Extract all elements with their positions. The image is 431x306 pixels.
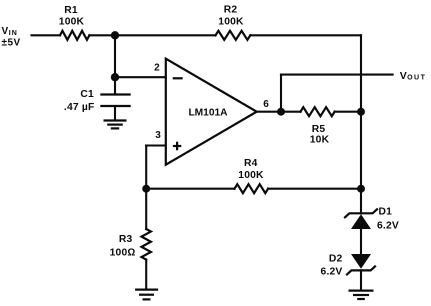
svg-text:6.2V: 6.2V: [377, 221, 399, 232]
capacitor C1: [100, 95, 130, 107]
plus sign non-inverting input: [173, 142, 181, 151]
wire C1 top lead: [114, 77, 116, 93]
svg-text:100K: 100K: [59, 17, 85, 28]
ground for R3: [135, 290, 158, 300]
junction node A: [111, 31, 119, 39]
svg-text:V: V: [2, 26, 9, 37]
svg-text:D2: D2: [329, 253, 343, 264]
wire D1 to D2: [360, 229, 362, 254]
wire R4 row right: [268, 188, 361, 190]
wire D2 bottom lead: [360, 270, 362, 289]
svg-text:10K: 10K: [310, 135, 330, 146]
zener diode D1: [345, 209, 377, 229]
svg-text:.47 µF: .47 µF: [64, 102, 95, 113]
wire right column vertical upper: [360, 35, 362, 111]
wire R2 to right column: [250, 34, 361, 36]
wire output up to VOUT row: [280, 75, 282, 112]
node VIN label: [2, 26, 21, 49]
resistor R5: [301, 107, 335, 116]
wire output node to R5: [281, 111, 301, 113]
wire pin2 node to op-amp: [115, 76, 166, 78]
resistor R3: [142, 229, 151, 260]
junction pin2 node: [111, 73, 119, 81]
svg-text:OUT: OUT: [407, 75, 426, 82]
wire D1 top lead: [360, 189, 362, 214]
resistor R2: [216, 31, 251, 40]
junction output node: [277, 108, 285, 116]
svg-text:R1: R1: [64, 5, 78, 16]
wire right column vertical lower: [360, 112, 362, 189]
svg-text:D1: D1: [379, 207, 393, 218]
wire C1 bottom lead: [114, 106, 116, 120]
wire R1 to node A: [89, 34, 115, 36]
svg-text:6: 6: [263, 99, 269, 110]
resistor R1: [60, 31, 89, 40]
svg-text:V: V: [400, 70, 407, 82]
svg-text:R4: R4: [244, 158, 258, 169]
wire node A down to pin2 node: [114, 35, 116, 77]
wire R3 top lead: [145, 189, 147, 229]
svg-text:100Ω: 100Ω: [110, 248, 136, 259]
svg-text:C1: C1: [80, 89, 94, 100]
wire pin3 column down: [145, 146, 147, 189]
svg-text:R2: R2: [224, 5, 238, 16]
svg-text:IN: IN: [9, 30, 18, 37]
wire R4 row left: [146, 188, 234, 190]
wire op-amp output: [257, 111, 281, 113]
wire pin3 horizontal: [146, 144, 166, 146]
svg-text:R3: R3: [119, 234, 133, 245]
zener diode D2: [347, 254, 375, 274]
minus sign inverting input: [173, 77, 183, 79]
svg-text:100K: 100K: [218, 16, 244, 27]
svg-text:R5: R5: [312, 124, 326, 135]
junction pin3 node: [142, 185, 150, 193]
wire VOUT row: [281, 74, 393, 76]
svg-text:6.2V: 6.2V: [321, 267, 343, 278]
resistor R4: [235, 184, 269, 193]
svg-text:±5V: ±5V: [2, 38, 21, 49]
wire R5 to right column: [335, 111, 361, 113]
svg-text:100K: 100K: [238, 170, 264, 181]
op-amp U1 LM101A: [166, 59, 257, 165]
svg-text:2: 2: [154, 63, 160, 74]
svg-text:3: 3: [155, 130, 161, 141]
wire node A to R2: [115, 34, 216, 36]
svg-text:LM101A: LM101A: [188, 107, 228, 118]
junction R5 right node: [357, 108, 365, 116]
ground for D2: [349, 291, 374, 299]
junction R4 right node: [357, 185, 365, 193]
ground for C1: [104, 121, 127, 129]
wire R3 bottom lead: [145, 260, 147, 289]
node VOUT label: [400, 70, 427, 82]
wire VIN input lead: [32, 34, 61, 36]
